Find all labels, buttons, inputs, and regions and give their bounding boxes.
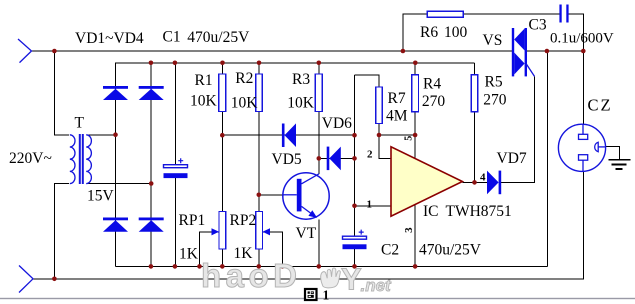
- label VS: [483, 32, 503, 49]
- label R7 value: [386, 107, 408, 124]
- socket CZ top slot: [579, 134, 588, 139]
- wire R5 column: [474, 63, 476, 183]
- svg-text:2: 2: [367, 149, 373, 161]
- resistor R4: [412, 75, 419, 112]
- pin 5: [403, 136, 414, 141]
- svg-text:470u/25V: 470u/25V: [187, 29, 250, 46]
- wire left bridge column: [115, 63, 117, 267]
- svg-text:R4: R4: [423, 75, 441, 92]
- potentiometer RP1 body: [219, 212, 226, 250]
- label R5 value: [483, 92, 507, 109]
- label IC TWH8751: [423, 203, 512, 220]
- transistor VT collector lead: [302, 174, 320, 184]
- label 220V~: [9, 150, 52, 167]
- label RP1: [179, 212, 206, 229]
- svg-text:1: 1: [367, 199, 373, 211]
- capacitor C3: [559, 5, 568, 23]
- svg-text:R2: R2: [235, 70, 253, 87]
- svg-text:R5: R5: [485, 73, 503, 90]
- svg-text:270: 270: [422, 93, 446, 110]
- svg-text:R1: R1: [195, 72, 213, 89]
- wire pin5 row R7 to R4: [379, 134, 415, 136]
- svg-text:C2: C2: [381, 242, 399, 259]
- transistor VT emitter lead with arrow: [302, 206, 318, 218]
- wire VD5 row: [222, 134, 354, 136]
- caption figure number: [323, 288, 330, 303]
- wire VT base: [259, 194, 284, 196]
- wire VD6 row: [319, 157, 355, 159]
- svg-text:VS: VS: [483, 32, 503, 49]
- diode VD5: [282, 123, 296, 147]
- wire VT emitter to ground rail: [318, 219, 320, 266]
- terminal top-left input arrow: [18, 39, 32, 63]
- wire CZ earth pin: [606, 147, 620, 160]
- resistor R5: [471, 75, 478, 112]
- diode VD4 bridge lower-right: [139, 218, 164, 232]
- wire R7 top jog: [355, 75, 380, 87]
- diode VD3 bridge lower-left: [103, 218, 128, 232]
- label VD7: [497, 150, 527, 167]
- label CZ: [588, 96, 613, 115]
- label C1 value: [163, 29, 251, 47]
- label VD5: [272, 151, 302, 168]
- label R3: [292, 71, 310, 88]
- svg-text:470u/25V: 470u/25V: [419, 242, 482, 259]
- socket CZ circle: [558, 124, 605, 171]
- wire CZ top lead: [582, 51, 584, 124]
- svg-text:TWH8751: TWH8751: [446, 203, 512, 220]
- socket CZ earth prong: [595, 142, 606, 151]
- capacitor C2: [343, 230, 367, 250]
- svg-text:haoD: haoD: [201, 257, 302, 294]
- svg-text:VT: VT: [296, 225, 317, 242]
- svg-text:10K: 10K: [287, 94, 315, 111]
- wire CZ bottom lead: [582, 171, 584, 278]
- transformer T primary winding: [70, 135, 75, 184]
- svg-text:CZ: CZ: [588, 96, 613, 115]
- svg-text:4: 4: [480, 172, 486, 184]
- svg-text:VD5: VD5: [272, 151, 302, 168]
- svg-text:VD6: VD6: [322, 115, 352, 132]
- svg-text:T: T: [75, 115, 85, 132]
- capacitor C1: [164, 158, 188, 178]
- label R4: [423, 75, 441, 92]
- svg-text:15V: 15V: [87, 188, 115, 205]
- label RP2 value: [234, 245, 254, 262]
- wire right bridge column: [150, 63, 152, 267]
- resistor R7: [376, 87, 383, 124]
- caption figure 1 glyph: [305, 289, 317, 300]
- svg-text:3: 3: [403, 227, 415, 233]
- wire IC pin3 to ground rail: [414, 205, 416, 267]
- wire IC input node column (pin1/C2): [354, 75, 356, 266]
- svg-text:IC: IC: [423, 203, 439, 220]
- wire RP1 wiper to ground rail: [200, 232, 220, 267]
- label T: [75, 115, 85, 132]
- svg-text:C3: C3: [529, 17, 547, 34]
- wire RP2 wiper to ground rail: [263, 232, 283, 267]
- wire R1/RP1 column: [221, 63, 223, 267]
- svg-text:R6: R6: [420, 24, 438, 41]
- label R6 value: [420, 24, 468, 41]
- label RP1 value: [179, 245, 199, 262]
- resistor R6: [427, 11, 463, 17]
- wire transformer secondary bottom to bridge: [88, 183, 152, 185]
- svg-text:.net: .net: [361, 276, 393, 295]
- resistor R3: [315, 74, 322, 112]
- pin 4: [480, 172, 486, 184]
- label 15V: [87, 188, 115, 205]
- svg-text:4M: 4M: [386, 107, 408, 124]
- op-amp IC TWH8751 triangle: [391, 147, 462, 216]
- transistor VT base bar: [297, 179, 302, 212]
- svg-text:100: 100: [444, 24, 468, 41]
- transistor VT circle: [283, 173, 329, 219]
- svg-text:RP1: RP1: [179, 212, 206, 229]
- wire DC ground rail: [116, 265, 548, 267]
- pin 3: [403, 227, 415, 233]
- wire R6/C3 top loop: [403, 14, 583, 51]
- label C2 value: [419, 242, 482, 259]
- socket CZ bottom slot: [579, 155, 588, 161]
- wire left vertical from top terminal to primary: [54, 51, 69, 135]
- svg-text:Y: Y: [341, 262, 362, 297]
- svg-text:C1: C1: [163, 29, 181, 46]
- label R1: [195, 72, 213, 89]
- potentiometer RP2 wiper arrow: [263, 228, 271, 235]
- ground symbol: [608, 160, 630, 169]
- label R4 value: [422, 93, 446, 110]
- label VD6: [322, 115, 352, 132]
- svg-text:RP2: RP2: [230, 212, 257, 229]
- pin 1: [367, 199, 373, 211]
- svg-text:VD7: VD7: [497, 150, 527, 167]
- label C3: [529, 17, 547, 34]
- transistor VT base lead: [283, 194, 297, 196]
- svg-text:R3: R3: [292, 71, 310, 88]
- transformer T core: [80, 134, 83, 184]
- resistor R1: [219, 74, 226, 112]
- terminal bottom-left input arrow: [19, 266, 33, 293]
- wire transformer secondary top to bridge: [88, 134, 116, 136]
- wire DC positive rail: [116, 63, 475, 267]
- pin 2: [367, 149, 373, 161]
- wire VD7 to VS gate: [501, 76, 535, 182]
- wire IC pin4 row to VD7: [462, 181, 487, 183]
- label R7: [388, 90, 406, 107]
- wire R4 column / IC pin5: [414, 63, 416, 159]
- potentiometer RP1 wiper arrow: [212, 228, 220, 235]
- gray bottom divider: [0, 298, 635, 299]
- triac VS: [512, 28, 535, 76]
- label R1 value: [190, 93, 218, 110]
- label C3 value: [550, 31, 614, 47]
- svg-text:1K: 1K: [179, 245, 199, 262]
- svg-text:10K: 10K: [231, 95, 259, 112]
- label VD1~VD4: [75, 30, 144, 47]
- svg-text:270: 270: [483, 92, 507, 109]
- wire R7 bottom to IC pin2: [379, 124, 391, 159]
- diode VD7: [487, 171, 501, 195]
- diode VD1 bridge upper-left: [103, 86, 128, 100]
- label R2 value: [231, 95, 259, 112]
- svg-text:5: 5: [403, 136, 414, 141]
- svg-text:10K: 10K: [190, 93, 218, 110]
- svg-text:VD1~VD4: VD1~VD4: [75, 30, 144, 47]
- potentiometer RP2 body: [256, 212, 263, 250]
- diode VD6: [327, 147, 341, 171]
- diode VD2 bridge upper-right: [139, 86, 164, 100]
- wire primary bottom to bottom line: [54, 184, 69, 279]
- label VT: [296, 225, 317, 242]
- socket CZ inner leads: [582, 124, 584, 171]
- resistor R2: [256, 74, 263, 112]
- watermark haoDIY.net: [201, 257, 392, 297]
- wire IC pin1: [355, 205, 392, 207]
- label R3 value: [287, 94, 315, 111]
- wire R3/VT column: [318, 63, 320, 174]
- label R5: [485, 73, 503, 90]
- transformer T secondary winding: [86, 135, 91, 184]
- svg-text:0.1u/600V: 0.1u/600V: [550, 31, 614, 47]
- wire VS output down to ground rail: [546, 51, 548, 266]
- label R2: [235, 70, 253, 87]
- wire C1 column: [175, 63, 177, 267]
- wire bottom main AC line: [33, 278, 584, 280]
- wire R2/RP2 column: [258, 63, 260, 267]
- svg-text:R7: R7: [388, 90, 406, 107]
- label RP2: [230, 212, 257, 229]
- svg-text:220V~: 220V~: [9, 150, 52, 167]
- wire top main AC line: [32, 50, 584, 52]
- svg-text:1: 1: [323, 288, 330, 303]
- label C2: [381, 242, 399, 259]
